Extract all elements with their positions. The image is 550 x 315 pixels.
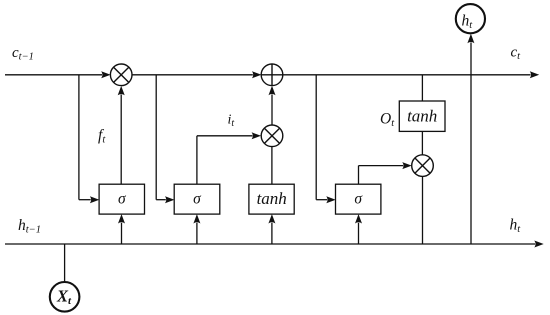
wire peephole drop 1: [79, 75, 99, 203]
gate box sigma3 (output gate): [336, 184, 381, 214]
wire sigma1 to X1: [118, 86, 125, 184]
multiplier X1 (forget gate product): [110, 64, 132, 86]
wire X3 to h line: [422, 176, 424, 244]
wire h to tanh1: [268, 214, 275, 244]
node h_t output circle: [456, 4, 485, 33]
gate box sigma1 (forget gate): [99, 184, 144, 214]
node f_t label: [98, 127, 106, 145]
node c_t-1 label: [12, 45, 34, 62]
wire sigma2 to X2: [197, 132, 261, 184]
gate box tanh2 (output tanh): [399, 101, 445, 131]
svg-text:σ: σ: [118, 191, 127, 208]
svg-text:tanh: tanh: [407, 107, 437, 126]
multiplier X2 (input product): [261, 125, 283, 147]
multiplier X3 (output product): [412, 155, 434, 177]
wire h to sigma3: [355, 214, 362, 244]
wire sigma3 to X3: [359, 162, 412, 184]
wire h to sigma1: [118, 214, 125, 244]
wire tanh1 to X2: [271, 147, 273, 185]
wire X2 to adder: [269, 86, 276, 125]
gate box tanh1 (candidate): [249, 184, 294, 214]
wire h line: [5, 241, 544, 248]
node h_t-1 label: [18, 217, 41, 235]
gate box sigma2 (input gate): [174, 184, 220, 214]
wire h to sigma2: [193, 214, 200, 244]
wire peephole drop 3: [316, 75, 336, 203]
wire tanh2 to X3: [421, 131, 423, 154]
wire X_t to h line: [64, 244, 66, 282]
node O_t label: [380, 111, 395, 129]
svg-text:σ: σ: [193, 191, 202, 208]
node h_t label: [510, 217, 522, 235]
wire peephole drop 2: [156, 75, 174, 203]
svg-text:σ: σ: [354, 191, 363, 208]
wire c line right segment: [283, 71, 539, 78]
node i_t label: [228, 113, 235, 129]
wire h up branch to h_t: [467, 34, 474, 244]
wire c line left segment: [5, 71, 111, 78]
svg-text:tanh: tanh: [257, 189, 287, 208]
node X_t input circle: [50, 282, 80, 312]
wire c to tanh2: [421, 75, 423, 101]
adder P1 (cell state sum): [261, 64, 283, 86]
wire c line middle segment: [132, 71, 261, 78]
node c_t label: [511, 45, 522, 62]
